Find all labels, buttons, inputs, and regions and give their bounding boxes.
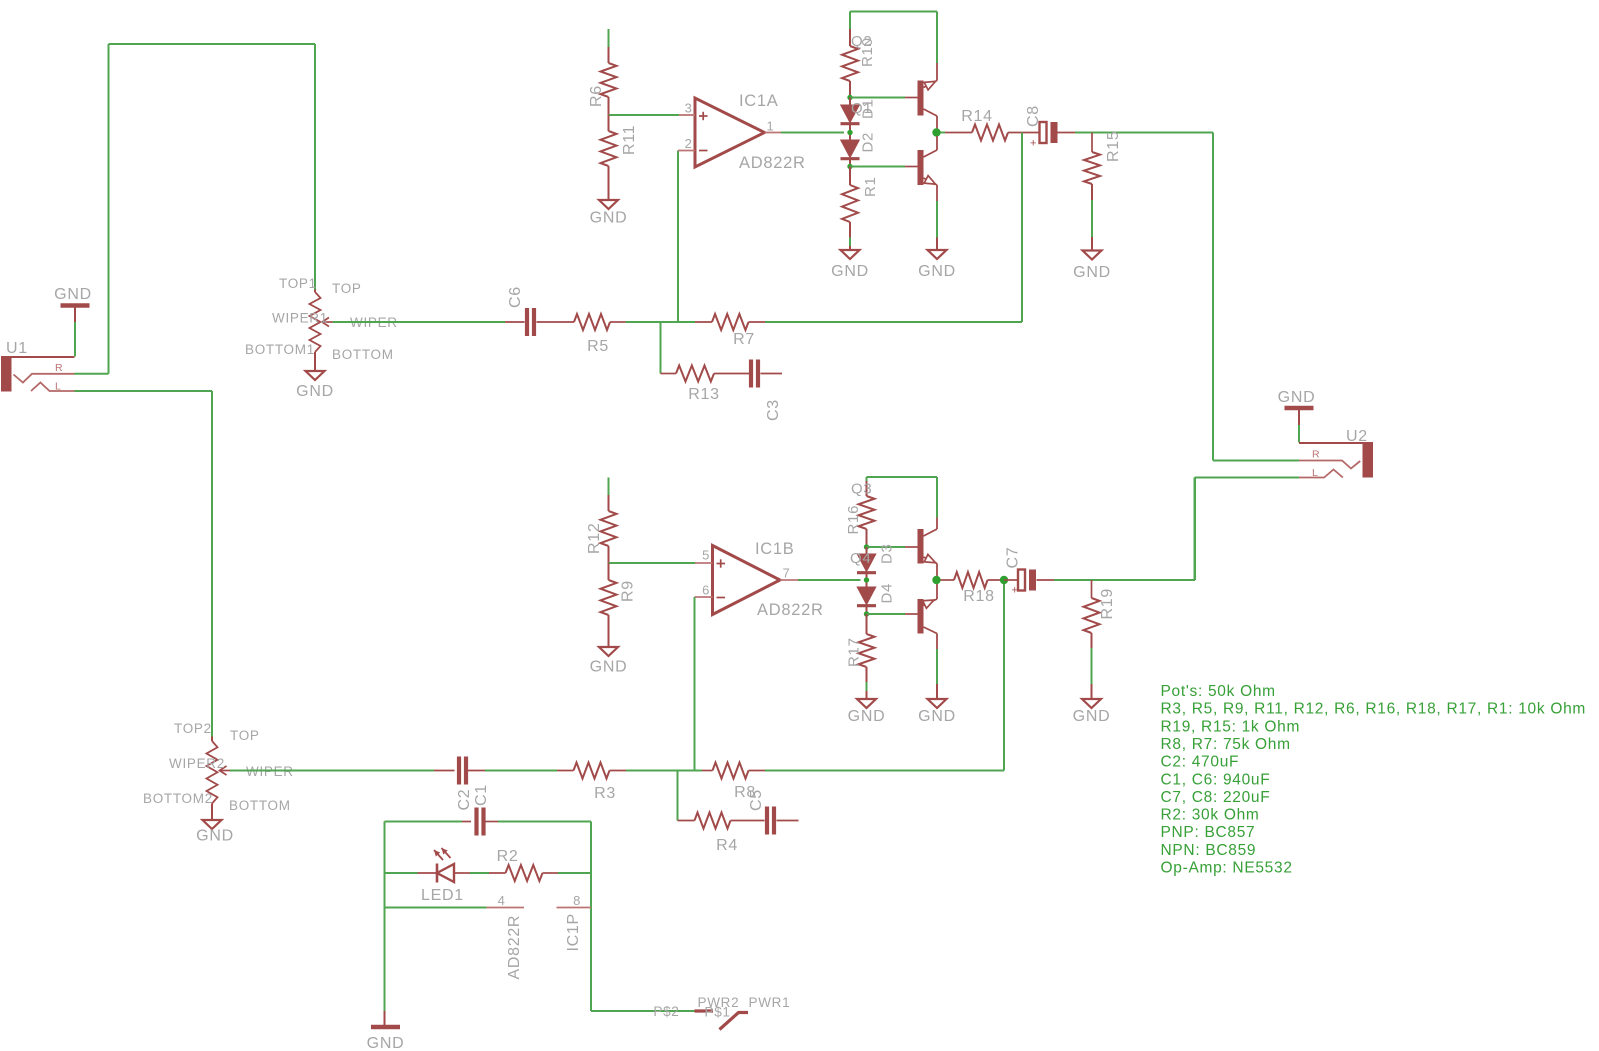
wire U2 R bbox=[1213, 460, 1299, 462]
svg-text:C7, C8: 220uF: C7, C8: 220uF bbox=[1161, 789, 1271, 806]
wire pot2 wiper bbox=[230, 770, 434, 772]
svg-text:GND: GND bbox=[1278, 389, 1316, 406]
svg-text:WIPER1: WIPER1 bbox=[272, 311, 328, 326]
wire U1-R to pot TOP1 bbox=[75, 373, 109, 375]
svg-text:GND: GND bbox=[831, 263, 869, 280]
ground pot2 bbox=[203, 820, 222, 829]
ground Q4 emitter bbox=[928, 699, 947, 708]
svg-text:L: L bbox=[1312, 467, 1319, 479]
ground R9 bbox=[599, 647, 618, 656]
resistor R1 bbox=[849, 167, 851, 186]
capacitor C3 bbox=[749, 360, 753, 388]
wire left rail power bbox=[384, 822, 386, 1012]
svg-text:C8: C8 bbox=[1025, 105, 1042, 127]
svg-text:BOTTOM1: BOTTOM1 bbox=[245, 342, 315, 357]
resistor R16 bbox=[866, 481, 868, 496]
svg-text:4: 4 bbox=[498, 893, 506, 908]
capacitor C1 bbox=[385, 821, 463, 823]
svg-text:R12: R12 bbox=[586, 523, 603, 554]
wire IC1B output bbox=[798, 579, 861, 581]
svg-text:C1: C1 bbox=[473, 784, 490, 806]
svg-text:GND: GND bbox=[54, 286, 92, 303]
resistor R2 bbox=[489, 872, 506, 874]
svg-text:AD822R: AD822R bbox=[757, 601, 824, 619]
resistor R6 bbox=[608, 47, 610, 63]
led LED1 bbox=[385, 872, 418, 874]
potentiometer TOP2/WIPER2/BOTTOM2 bbox=[211, 737, 213, 742]
svg-text:D3: D3 bbox=[879, 543, 896, 564]
wire U1-L to pot TOP2 bbox=[75, 390, 213, 392]
resistor R8 bbox=[702, 770, 713, 772]
svg-text:GND: GND bbox=[1073, 708, 1111, 725]
connector U2 jack bbox=[1363, 442, 1374, 478]
svg-text:GND: GND bbox=[590, 659, 628, 676]
svg-text:U1: U1 bbox=[6, 340, 28, 357]
wire noninverting input B bbox=[609, 562, 696, 564]
svg-text:TOP: TOP bbox=[230, 728, 260, 743]
capacitor C5 bbox=[765, 807, 769, 835]
svg-text:R9: R9 bbox=[620, 580, 637, 602]
svg-text:AD822R: AD822R bbox=[739, 154, 806, 172]
svg-text:WIPER2: WIPER2 bbox=[169, 756, 225, 771]
svg-text:8: 8 bbox=[573, 893, 581, 908]
wire C1 right rail bbox=[590, 822, 592, 1012]
pin P$2 bbox=[695, 1009, 714, 1012]
resistor R7 bbox=[695, 321, 712, 323]
wire pin8 to PWR bbox=[591, 1010, 695, 1012]
wire U2 L bbox=[1195, 477, 1300, 479]
svg-text:R16: R16 bbox=[845, 505, 862, 535]
svg-text:R: R bbox=[55, 362, 63, 374]
resistor R5 bbox=[574, 314, 610, 330]
svg-text:R19: R19 bbox=[1099, 588, 1116, 619]
svg-text:R14: R14 bbox=[961, 108, 992, 125]
wire pot1 wiper bbox=[333, 321, 506, 323]
svg-text:GND: GND bbox=[918, 263, 956, 280]
node base lower A bbox=[847, 164, 852, 169]
wire R7 to feedback node A bbox=[765, 321, 1022, 323]
wire feedback tap A bbox=[1021, 133, 1023, 323]
resistor R19 bbox=[1091, 580, 1093, 598]
resistor R3 bbox=[557, 770, 574, 772]
svg-text:5: 5 bbox=[702, 548, 710, 563]
resistor R9 bbox=[608, 563, 610, 580]
svg-text:GND: GND bbox=[296, 383, 334, 400]
svg-text:C3: C3 bbox=[765, 399, 782, 421]
svg-text:+: + bbox=[1011, 585, 1018, 597]
svg-text:PNP: BC857: PNP: BC857 bbox=[1161, 824, 1256, 841]
svg-text:GND: GND bbox=[848, 708, 886, 725]
svg-text:7: 7 bbox=[783, 566, 791, 581]
svg-text:R13: R13 bbox=[688, 386, 719, 403]
svg-text:PWR1: PWR1 bbox=[749, 995, 791, 1010]
svg-text:C7: C7 bbox=[1005, 547, 1022, 569]
resistor R15 bbox=[1091, 133, 1093, 153]
svg-text:Op-Amp: NE5532: Op-Amp: NE5532 bbox=[1161, 860, 1293, 877]
svg-text:3: 3 bbox=[685, 101, 693, 116]
svg-text:BOTTOM: BOTTOM bbox=[229, 798, 291, 813]
node output opamp B bbox=[864, 577, 869, 582]
svg-text:GND: GND bbox=[1073, 264, 1111, 281]
svg-text:R18: R18 bbox=[963, 588, 994, 605]
svg-text:C2: C2 bbox=[456, 789, 473, 811]
svg-text:TOP: TOP bbox=[332, 281, 362, 296]
svg-text:P$1: P$1 bbox=[705, 1005, 731, 1020]
svg-text:GND: GND bbox=[590, 210, 628, 227]
wire C7 to U2 L bbox=[1054, 579, 1195, 581]
svg-text:Q4: Q4 bbox=[850, 550, 871, 567]
wire R8 to output node B bbox=[765, 770, 1004, 772]
svg-text:R3: R3 bbox=[594, 785, 616, 802]
svg-text:AD822R: AD822R bbox=[506, 915, 523, 980]
svg-text:R17: R17 bbox=[846, 637, 863, 667]
svg-text:R1: R1 bbox=[862, 176, 879, 197]
svg-text:Q3: Q3 bbox=[851, 481, 872, 498]
node output opamp A bbox=[847, 130, 852, 135]
svg-text:6: 6 bbox=[702, 583, 710, 598]
ground R1 bbox=[841, 250, 860, 259]
svg-text:C1, C6: 940uF: C1, C6: 940uF bbox=[1161, 771, 1271, 788]
node output B bbox=[932, 576, 940, 584]
wire rail A right bbox=[936, 12, 938, 64]
svg-text:R15: R15 bbox=[1105, 131, 1122, 162]
svg-text:LED1: LED1 bbox=[421, 887, 464, 904]
svg-text:GND: GND bbox=[367, 1035, 405, 1051]
op-amp IC1A bbox=[695, 98, 765, 167]
resistor R12 bbox=[608, 495, 610, 511]
svg-text:L: L bbox=[55, 381, 62, 393]
wire R3 to R8 bbox=[626, 770, 702, 772]
resistor R10 bbox=[849, 29, 851, 46]
svg-text:D1: D1 bbox=[860, 98, 877, 119]
node base upper B bbox=[864, 544, 869, 549]
ground GND rail U1 bbox=[61, 303, 90, 308]
svg-text:R10: R10 bbox=[859, 37, 876, 67]
capacitor C8 bbox=[1040, 122, 1047, 143]
ground R17 bbox=[857, 699, 876, 708]
resistor R14 bbox=[945, 132, 972, 134]
svg-text:C5: C5 bbox=[748, 789, 765, 811]
node output A bbox=[932, 128, 940, 136]
resistor R18 bbox=[941, 579, 955, 581]
transistor Q3 upper B bbox=[918, 529, 924, 564]
capacitor C6 bbox=[505, 321, 525, 323]
wire R12 top stub bbox=[608, 478, 610, 496]
svg-text:NPN: BC859: NPN: BC859 bbox=[1161, 842, 1257, 859]
resistor R13 bbox=[661, 373, 677, 375]
svg-text:R: R bbox=[1312, 449, 1320, 461]
svg-text:R19, R15: 1k Ohm: R19, R15: 1k Ohm bbox=[1161, 718, 1301, 735]
ground IC1P bbox=[384, 1011, 386, 1025]
svg-text:IC1P: IC1P bbox=[565, 913, 582, 951]
svg-text:C2: 470uF: C2: 470uF bbox=[1161, 754, 1240, 771]
svg-text:R6: R6 bbox=[588, 85, 605, 107]
resistor R17 bbox=[866, 614, 868, 634]
wire inverting input A bbox=[677, 151, 679, 323]
wire junction to R13 branch bbox=[660, 322, 662, 374]
node base lower B bbox=[864, 611, 869, 616]
svg-text:R5: R5 bbox=[587, 338, 609, 355]
svg-text:Pot's: 50k Ohm: Pot's: 50k Ohm bbox=[1161, 683, 1276, 700]
svg-text:R2: 30k Ohm: R2: 30k Ohm bbox=[1161, 807, 1260, 824]
node base upper A bbox=[847, 95, 852, 100]
wire rail A bbox=[850, 11, 937, 13]
svg-text:GND: GND bbox=[196, 828, 234, 845]
svg-text:D4: D4 bbox=[879, 583, 896, 604]
wire IC1A output bbox=[781, 132, 844, 134]
wire rail B bbox=[867, 476, 938, 478]
ground R19 bbox=[1082, 699, 1101, 708]
svg-text:R8, R7: 75k Ohm: R8, R7: 75k Ohm bbox=[1161, 736, 1291, 753]
capacitor C7 bbox=[1004, 579, 1018, 581]
potentiometer TOP1/WIPER1/BOTTOM1 bbox=[314, 290, 316, 293]
svg-text:TOP1: TOP1 bbox=[279, 276, 317, 291]
transistor Q2 PNP upper A bbox=[918, 81, 924, 116]
wire inverting input B bbox=[694, 597, 696, 771]
node C7 junction bbox=[1000, 576, 1008, 584]
svg-text:R2: R2 bbox=[497, 848, 519, 865]
svg-text:D2: D2 bbox=[860, 132, 877, 153]
diode D3 bbox=[866, 547, 868, 554]
ground pot1 bbox=[306, 371, 325, 380]
svg-text:R7: R7 bbox=[733, 331, 755, 348]
diode D4 bbox=[857, 587, 876, 605]
svg-text:U2: U2 bbox=[1346, 428, 1368, 445]
resistor R4 bbox=[678, 820, 695, 822]
svg-text:C6: C6 bbox=[507, 286, 524, 308]
svg-text:BOTTOM: BOTTOM bbox=[332, 347, 394, 362]
ic IC1P power pins bbox=[385, 907, 487, 909]
svg-text:R4: R4 bbox=[716, 837, 738, 854]
svg-text:2: 2 bbox=[685, 136, 693, 151]
svg-text:R11: R11 bbox=[621, 125, 638, 155]
wire junction to R4 branch bbox=[677, 771, 679, 821]
connector U1 jack bbox=[1, 356, 12, 392]
svg-text:GND: GND bbox=[918, 708, 956, 725]
op-amp IC1B bbox=[713, 546, 781, 615]
capacitor C2 bbox=[434, 770, 455, 772]
transistor Q4 lower B bbox=[918, 599, 924, 634]
svg-text:IC1B: IC1B bbox=[755, 540, 794, 558]
diode D2 bbox=[841, 140, 860, 158]
svg-text:+: + bbox=[1030, 138, 1037, 150]
svg-text:1: 1 bbox=[767, 119, 775, 134]
ground R11 bbox=[599, 200, 618, 209]
resistor R11 bbox=[608, 115, 610, 131]
ground GND rail U2 bbox=[1285, 406, 1314, 411]
wire C8 to U2 R bbox=[1075, 132, 1213, 134]
wire rail B right bbox=[936, 477, 938, 518]
svg-text:R3, R5, R9, R11, R12, R6, R16,: R3, R5, R9, R11, R12, R6, R16, R18, R17,… bbox=[1161, 701, 1587, 718]
ground R15 bbox=[1083, 251, 1102, 260]
svg-text:IC1A: IC1A bbox=[739, 92, 778, 110]
svg-text:P$2: P$2 bbox=[653, 1004, 679, 1019]
transistor Q1 NPN lower A bbox=[918, 150, 924, 185]
diode D1 bbox=[849, 98, 851, 106]
ground Q1 emitter bbox=[928, 250, 947, 259]
svg-text:TOP2: TOP2 bbox=[174, 721, 212, 736]
wire C2 to R3 bbox=[485, 770, 557, 772]
wire R6 top stub bbox=[608, 29, 610, 47]
wire R5 to R7 bbox=[626, 321, 696, 323]
svg-text:BOTTOM2: BOTTOM2 bbox=[143, 791, 213, 806]
wire noninverting input A bbox=[609, 114, 680, 116]
pin P$1 PWR1 bbox=[720, 1013, 749, 1030]
